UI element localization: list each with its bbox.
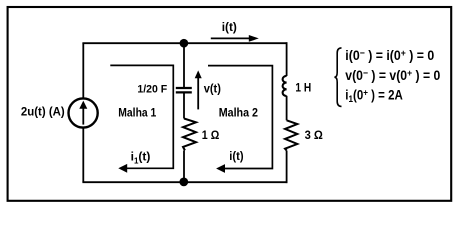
node A (top junction) [180,39,189,48]
inductor L1 1 H [283,76,287,96]
svg-text:v(t): v(t) [204,82,221,96]
current source I1 [69,98,98,127]
capacitor C 1/20 F [176,88,192,92]
svg-text:Malha 1: Malha 1 [118,108,157,120]
svg-text:i1(t): i1(t) [131,150,151,166]
wire: right branch above inductor [286,42,288,76]
wire: top [82,42,287,44]
wire: middle branch below 1-ohm resistor [183,151,185,183]
resistor R2 3 ohm (right branch) [285,120,297,150]
mesh 2 loop arrow [208,66,272,173]
wire: left branch upper segment [82,43,84,98]
initial conditions brace [334,48,341,107]
resistor R1 1 ohm (middle branch) [183,119,196,151]
svg-text:1/20 F: 1/20 F [137,83,167,95]
svg-text:1 Ω: 1 Ω [202,130,220,142]
svg-text:v(0− ) = v(0+ ) = 0: v(0− ) = v(0+ ) = 0 [345,68,440,83]
node B (bottom junction) [179,178,188,187]
wire: left branch lower segment [82,128,84,182]
current arrow i(t) top [211,35,259,42]
svg-text:i(t): i(t) [229,149,243,163]
svg-text:3 Ω: 3 Ω [305,130,323,142]
mesh 1 loop arrow [110,65,173,172]
wire: bottom [82,181,287,183]
svg-text:i1(0+ ) = 2A: i1(0+ ) = 2A [345,87,403,105]
initial conditions equations [345,48,440,105]
svg-text:i(0− ) = i(0+ ) = 0: i(0− ) = i(0+ ) = 0 [345,48,434,63]
wire: middle branch from node A to capacitor [183,43,185,87]
svg-text:2u(t) (A): 2u(t) (A) [21,107,65,119]
svg-text:i(t): i(t) [222,20,237,34]
wire: middle branch from capacitor to 1-ohm resistor [183,93,185,119]
svg-text:1 H: 1 H [295,82,311,94]
wire: right branch below 3-ohm resistor [286,151,288,183]
voltage arrow v(t) [195,70,202,109]
wire: right branch between inductor and 3-ohm resistor [286,96,288,121]
svg-text:Malha 2: Malha 2 [219,108,258,120]
